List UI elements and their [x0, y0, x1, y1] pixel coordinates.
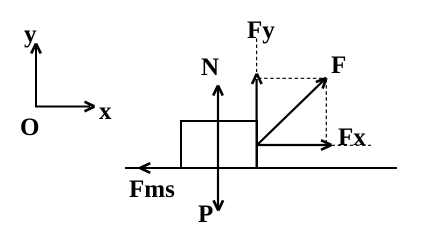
dashed projection line above Fy arrowhead [256, 38, 258, 72]
svg-text:Fms: Fms [129, 176, 175, 203]
ground line [125, 167, 397, 169]
axis y [31, 44, 41, 108]
force Fms arrow (friction, leftward along ground) [140, 163, 150, 173]
svg-text:F: F [331, 52, 346, 79]
force P arrow (weight) [214, 168, 224, 211]
axis x [35, 102, 95, 112]
dashed projection line right (F tip to Fx tip) [325, 79, 327, 145]
dashed line under Fx label [332, 144, 372, 146]
dashed projection line top (Fy tip to F tip) [258, 77, 326, 79]
svg-text:Fy: Fy [247, 17, 275, 44]
box (block) [181, 121, 257, 168]
svg-text:O: O [20, 114, 39, 141]
svg-text:N: N [201, 54, 219, 81]
force N arrow (normal) [213, 85, 223, 168]
svg-text:x: x [99, 98, 112, 125]
svg-text:y: y [24, 21, 37, 48]
force Fy arrow (vertical component) [252, 74, 262, 168]
svg-text:Fx: Fx [338, 124, 366, 151]
svg-text:P: P [198, 201, 213, 228]
force F arrow (applied, diagonal) [257, 78, 326, 145]
force Fx arrow (horizontal component) [257, 140, 331, 150]
